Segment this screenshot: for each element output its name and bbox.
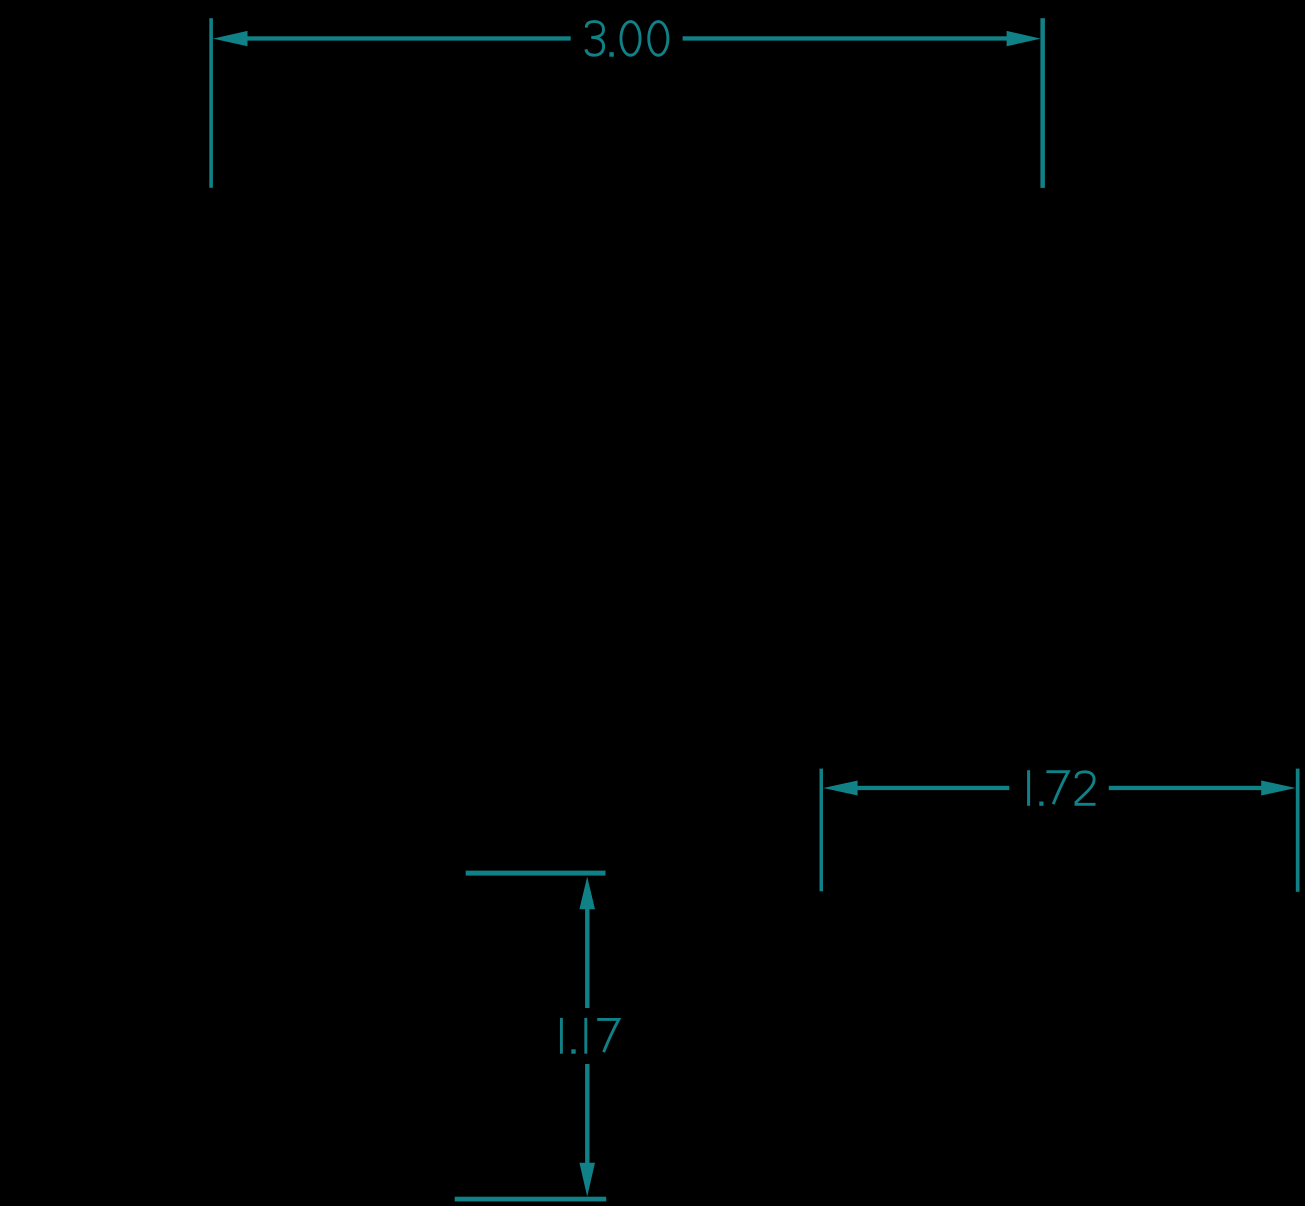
dimension 1.72: right arrowhead: [1261, 781, 1295, 796]
dimension 1.17: text decimal point: [571, 1049, 575, 1053]
dimension 1.17: text digit 1 (first): [560, 1018, 563, 1054]
dimension 1.72: text decimal point: [1039, 802, 1043, 806]
dimension 3.00: dimension line right segment: [683, 36, 1008, 40]
dimension 1.17: top extension line: [466, 871, 606, 876]
dimension 3.00: left extension line: [209, 18, 213, 188]
dimension 3.00: right extension line: [1040, 18, 1045, 188]
dimension 3.00: text digit 0 (second): [649, 22, 668, 56]
dimension 1.72: right extension line: [1296, 769, 1300, 892]
dimension 1.72: dimension line right segment: [1109, 786, 1263, 790]
dimension 1.17: text digit 7: [597, 1019, 619, 1052]
dimension 1.72: text digit 1: [1027, 770, 1030, 806]
dimension 1.17: bottom extension line: [455, 1197, 607, 1202]
dimension 3.00: right arrowhead: [1007, 31, 1041, 46]
dimension 1.17: top arrowhead: [579, 877, 595, 910]
dimension 1.17: dimension line upper segment: [585, 908, 589, 1008]
dimension 3.00: left arrowhead: [213, 31, 248, 46]
dimension 1.72: text digit 7: [1046, 772, 1068, 805]
dimension 1.17: dimension line lower segment: [585, 1064, 589, 1164]
dimension 3.00: text digit 3: [586, 22, 604, 56]
dimension 3.00: dimension line left segment: [246, 36, 571, 40]
dimension 1.17: bottom arrowhead: [579, 1163, 595, 1197]
dimension 1.17: text digit 1 (second): [584, 1018, 587, 1054]
dimension 1.72: dimension line left segment: [856, 786, 1009, 790]
dimension 1.72: text digit 2: [1076, 772, 1096, 805]
dimension 3.00: text decimal point: [609, 52, 613, 57]
dimension 1.72: left extension line: [820, 769, 824, 892]
dimension 1.72: left arrowhead: [823, 781, 857, 796]
dimension 3.00: text digit 0 (first): [621, 22, 640, 56]
